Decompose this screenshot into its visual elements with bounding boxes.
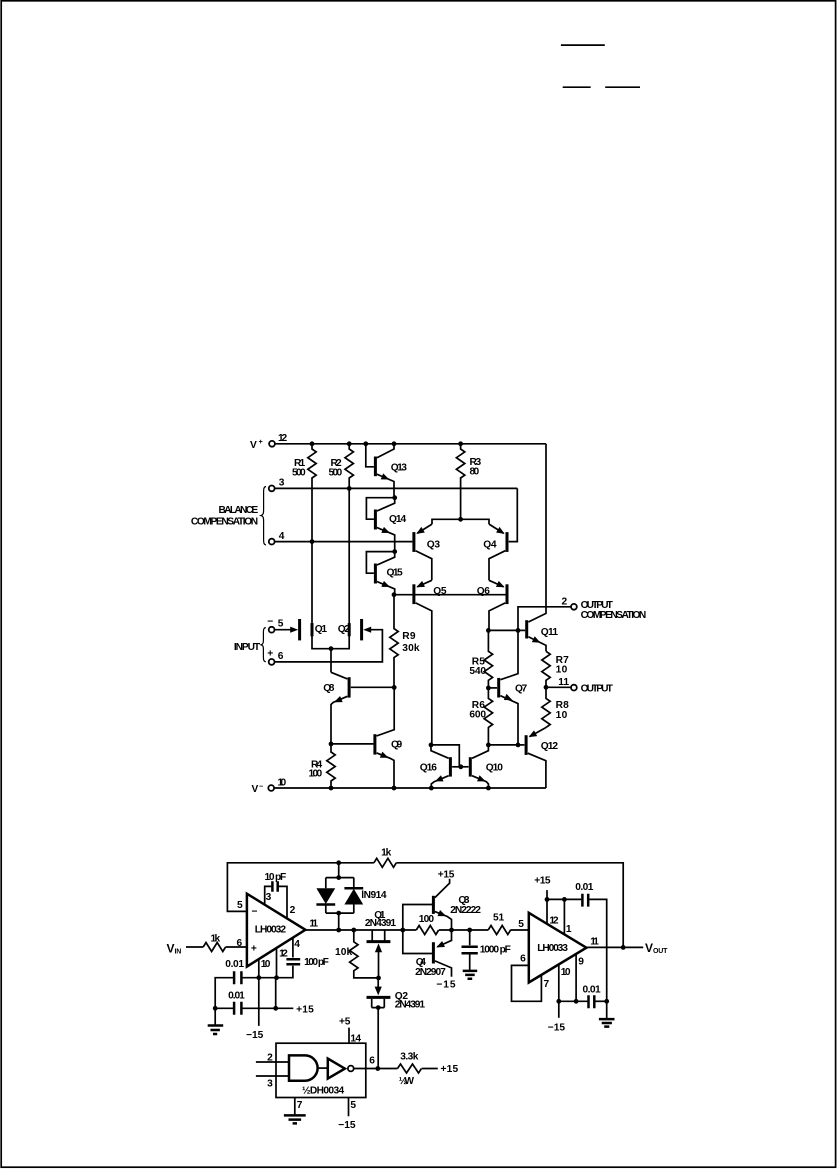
wire pin 10 stub to -15 xyxy=(258,959,260,1026)
transistor Q11 xyxy=(518,444,558,652)
svg-text:5: 5 xyxy=(278,619,284,630)
transistor Q12 xyxy=(518,728,558,789)
svg-text:−: − xyxy=(252,907,258,918)
wire gate output xyxy=(354,1056,378,1069)
node Q7 base xyxy=(486,686,491,691)
transistor Q13 xyxy=(366,444,407,498)
svg-text:Q16: Q16 xyxy=(420,762,438,773)
transistor Q7 xyxy=(488,630,527,745)
ground symbol left xyxy=(208,1008,224,1034)
svg-text:2N4391: 2N4391 xyxy=(365,918,397,929)
wire pin 7 stub xyxy=(295,1098,303,1116)
svg-text:3: 3 xyxy=(279,478,285,489)
svg-text:BALANCE: BALANCE xyxy=(219,505,259,516)
svg-text:V: V xyxy=(252,784,259,795)
op-amp U1 LH0032 xyxy=(237,894,306,967)
svg-text:6: 6 xyxy=(369,1056,375,1067)
svg-text:lN914: lN914 xyxy=(361,890,387,901)
svg-text:10: 10 xyxy=(556,710,568,721)
svg-text:+15: +15 xyxy=(296,1004,314,1015)
svg-text:Q4: Q4 xyxy=(483,539,497,550)
capacitor 0.01 lower xyxy=(215,990,293,1015)
svg-text:2N2907: 2N2907 xyxy=(415,967,446,978)
node Q5 collector junction xyxy=(429,743,434,748)
svg-text:Q15: Q15 xyxy=(387,567,404,578)
wire pin 10 stub LH0033 xyxy=(556,964,570,1003)
wire feedback top-left to pin5 xyxy=(227,863,374,912)
svg-text:+: + xyxy=(267,649,273,660)
wire buffer base loop xyxy=(403,905,433,954)
fraction bar 2 xyxy=(563,86,591,88)
svg-text:100: 100 xyxy=(309,768,323,779)
svg-text:9: 9 xyxy=(578,957,584,968)
svg-text:+15: +15 xyxy=(438,869,455,880)
resistor R8 10 xyxy=(542,687,569,727)
svg-text:0.01: 0.01 xyxy=(575,882,594,893)
svg-text:LH0032: LH0032 xyxy=(255,925,287,936)
node output xyxy=(544,685,549,690)
node Q7 emitter / Q12 base xyxy=(516,743,521,748)
resistor 100 xyxy=(416,914,438,935)
wire V- rail xyxy=(274,787,546,789)
wire mirror tie xyxy=(431,745,459,767)
svg-text:11: 11 xyxy=(558,677,569,688)
resistor R7 10 xyxy=(542,651,569,687)
svg-text:−: − xyxy=(259,784,263,791)
wire feedback right to output xyxy=(396,863,623,948)
wire input 3 xyxy=(256,1076,289,1090)
svg-text:−15: −15 xyxy=(436,980,456,991)
IC DH0034 box xyxy=(276,1043,366,1097)
AND gate xyxy=(289,1055,318,1080)
svg-text:3: 3 xyxy=(267,1079,273,1090)
svg-text:30k: 30k xyxy=(402,643,420,654)
node +15 tie xyxy=(273,1006,278,1011)
svg-text:Q12: Q12 xyxy=(541,741,559,752)
svg-text:11: 11 xyxy=(309,918,318,929)
svg-text:1k: 1k xyxy=(211,933,221,944)
wire pin 14 stub +5 xyxy=(339,1017,361,1045)
node pin2/Q11 base xyxy=(516,628,521,633)
svg-text:600: 600 xyxy=(469,710,486,721)
svg-text:6: 6 xyxy=(520,953,526,964)
wire to pin 6 xyxy=(226,946,247,948)
svg-text:OUTPUT: OUTPUT xyxy=(581,683,614,694)
input brace xyxy=(261,628,266,662)
ground symbol right xyxy=(599,1019,615,1027)
svg-text:100: 100 xyxy=(419,914,435,925)
resistor R9 30k xyxy=(390,595,420,688)
svg-text:−15: −15 xyxy=(338,1120,356,1131)
svg-text:2: 2 xyxy=(267,1053,273,1064)
wire pin 4 line xyxy=(274,541,412,543)
resistor 1k feedback xyxy=(374,847,396,867)
wire VIN xyxy=(186,946,203,948)
svg-text:5: 5 xyxy=(237,900,243,911)
transistor Q5 xyxy=(414,580,447,745)
wire output VOUT xyxy=(586,936,668,954)
svg-text:Q1: Q1 xyxy=(315,624,328,635)
svg-text:1000 pF: 1000 pF xyxy=(480,945,511,956)
pin 2 terminal xyxy=(562,597,577,610)
svg-text:OUT: OUT xyxy=(653,948,668,955)
wire pin12/+15 vertical xyxy=(275,978,277,1009)
svg-text:Q9: Q9 xyxy=(391,739,403,750)
svg-text:−15: −15 xyxy=(246,1030,264,1041)
node Q10 collector / R6 xyxy=(486,743,491,748)
capacitor 0.01 top LH0033 xyxy=(547,882,607,1019)
node diode branch top xyxy=(336,860,341,877)
fraction bar 3 xyxy=(605,86,640,88)
JFET Q1 xyxy=(274,542,331,649)
svg-text:5: 5 xyxy=(518,919,524,930)
svg-text:Q14: Q14 xyxy=(389,514,407,525)
svg-text:10: 10 xyxy=(556,664,568,675)
pin 10 terminal V- xyxy=(252,778,287,795)
svg-text:0.01: 0.01 xyxy=(225,959,244,970)
svg-text:7: 7 xyxy=(297,1100,303,1111)
node Q16/Q10 base tie xyxy=(458,764,463,769)
transistor Q3 xyxy=(414,524,440,580)
capacitor 0.01 upper xyxy=(215,959,276,1008)
pin 11 terminal OUTPUT xyxy=(558,677,613,694)
svg-text:3.3k: 3.3k xyxy=(400,1052,419,1063)
svg-text:Q10: Q10 xyxy=(486,762,504,773)
pin 4 terminal xyxy=(269,531,285,545)
svg-text:500: 500 xyxy=(292,468,306,479)
svg-text:1k: 1k xyxy=(381,847,392,858)
label BALANCE COMPENSATION xyxy=(191,505,258,527)
wire pin 5 stub -15 xyxy=(338,1098,356,1132)
svg-text:IN: IN xyxy=(175,949,182,956)
wire input 2 xyxy=(256,1053,289,1064)
wire output signal line xyxy=(305,929,528,931)
svg-text:14: 14 xyxy=(350,1033,361,1044)
wire to pin 11 xyxy=(546,686,571,688)
svg-text:Q8: Q8 xyxy=(323,683,335,694)
wire pin 6/7 loop LH0033 xyxy=(512,953,550,1001)
svg-text:10: 10 xyxy=(561,967,571,978)
resistor R6 600 xyxy=(469,688,492,745)
wire Q5/Q6 base rail xyxy=(394,594,506,596)
wire pin 9 stub LH0033 xyxy=(574,954,585,1004)
node ground tie xyxy=(213,1006,218,1011)
inverter with bubble xyxy=(318,1059,354,1079)
wire to pin 2 xyxy=(518,607,571,631)
svg-text:Q3: Q3 xyxy=(427,539,441,550)
transistor Q6 xyxy=(477,580,507,630)
svg-text:INPUT: INPUT xyxy=(234,642,261,653)
svg-text:−15: −15 xyxy=(548,1023,566,1034)
resistor R2 500 xyxy=(329,444,354,489)
svg-text:540: 540 xyxy=(469,666,486,677)
svg-text:500: 500 xyxy=(329,468,343,479)
svg-text:10: 10 xyxy=(278,778,287,789)
svg-text:+5: +5 xyxy=(339,1017,351,1028)
transistor Q8 xyxy=(323,672,394,744)
wire pin 12 stub xyxy=(276,948,278,978)
svg-text:5: 5 xyxy=(350,1100,356,1111)
svg-text:½W: ½W xyxy=(399,1076,415,1087)
wire pin 3 line xyxy=(274,487,517,489)
svg-text:11: 11 xyxy=(590,936,599,947)
wire Q6-collector to Q11-base xyxy=(488,629,518,631)
svg-text:6: 6 xyxy=(237,938,243,949)
wire -15 stub LH0033 xyxy=(548,1001,566,1033)
svg-text:10: 10 xyxy=(261,959,271,970)
resistor 51 xyxy=(488,913,510,935)
resistor R3 80 xyxy=(456,444,481,520)
svg-text:COMPENSATION: COMPENSATION xyxy=(191,516,258,527)
svg-text:7: 7 xyxy=(544,979,550,990)
svg-text:Q2: Q2 xyxy=(338,624,351,635)
svg-text:+15: +15 xyxy=(534,875,551,886)
svg-text:6: 6 xyxy=(278,651,284,662)
svg-text:4: 4 xyxy=(279,531,285,542)
svg-text:10 pF: 10 pF xyxy=(265,872,287,883)
svg-text:+: + xyxy=(259,439,263,446)
svg-text:10k: 10k xyxy=(335,947,353,958)
wire base line Q12 xyxy=(488,744,518,746)
balance compensation brace xyxy=(261,487,266,546)
wire pin 1 stub LH0033 xyxy=(562,897,572,935)
transistor Q2 2N4391 xyxy=(367,978,426,1069)
node dots on V+ rail xyxy=(310,441,463,446)
transistor Q4 2N2907 xyxy=(415,930,456,991)
svg-text:LH0033: LH0033 xyxy=(537,943,568,954)
svg-text:R9: R9 xyxy=(402,631,416,642)
capacitor 10 pF xyxy=(265,872,296,918)
transistor Q1 2N4391 xyxy=(365,910,397,978)
resistor 1k input xyxy=(203,933,225,951)
transistor Q10 xyxy=(461,745,503,788)
node common source xyxy=(329,646,334,672)
svg-text:1: 1 xyxy=(566,924,572,935)
pin 5 terminal (minus input) xyxy=(267,617,283,633)
svg-text:½DH0034: ½DH0034 xyxy=(302,1085,345,1096)
JFET Q2 xyxy=(274,619,382,662)
label VIN xyxy=(167,942,182,956)
resistor R5 540 xyxy=(469,630,492,688)
svg-text:12: 12 xyxy=(549,916,559,927)
svg-text:V: V xyxy=(645,941,653,955)
node Q6 collector xyxy=(486,628,491,633)
transistor Q9 xyxy=(331,687,403,788)
svg-text:V: V xyxy=(167,942,175,956)
svg-text:2: 2 xyxy=(562,597,568,608)
node DH0034 output xyxy=(375,1066,380,1071)
svg-text:Q7: Q7 xyxy=(515,683,528,694)
svg-text:51: 51 xyxy=(493,913,505,924)
label OUTPUT COMPENSATION xyxy=(581,600,647,621)
svg-text:2N2222: 2N2222 xyxy=(450,905,481,916)
fraction bar 1 xyxy=(561,44,605,46)
node dots on V- rail xyxy=(329,786,491,791)
transistor Q16 xyxy=(420,745,461,788)
svg-text:Q13: Q13 xyxy=(391,463,408,474)
svg-text:COMPENSATION: COMPENSATION xyxy=(581,610,647,621)
diode pair 1N914 xyxy=(316,875,386,930)
pin 12 V+ terminal xyxy=(250,433,288,451)
resistor 10k xyxy=(335,930,379,978)
transistor Q14 diode-connected xyxy=(366,495,406,551)
svg-text:−: − xyxy=(267,617,273,628)
svg-text:2N4391: 2N4391 xyxy=(395,1000,426,1011)
capacitor 100 pF xyxy=(277,938,329,978)
pin 3 terminal xyxy=(269,478,285,492)
wire Q3/Q4 emitter rail from R3 xyxy=(432,519,489,524)
svg-text:+15: +15 xyxy=(441,1064,459,1075)
node signal dots xyxy=(336,928,472,933)
svg-text:0.01: 0.01 xyxy=(228,990,245,1001)
svg-text:0.01: 0.01 xyxy=(583,984,602,995)
capacitor 0.01 bottom LH0033 xyxy=(559,984,609,1008)
wire pin 12 stub LH0033 xyxy=(534,875,559,926)
capacitor 1000 pF xyxy=(462,930,511,979)
svg-text:+: + xyxy=(251,944,257,955)
resistor 3.3k xyxy=(378,1052,459,1087)
svg-text:80: 80 xyxy=(470,467,480,478)
svg-text:Q11: Q11 xyxy=(541,627,559,638)
pin 6 terminal (plus input) xyxy=(267,649,283,665)
resistor R1 500 xyxy=(292,444,316,542)
node R9 bottom xyxy=(392,685,397,690)
svg-text:2: 2 xyxy=(290,905,296,916)
resistor R4 100 xyxy=(309,744,336,788)
ground symbol DH0034 xyxy=(284,1115,306,1123)
svg-text:12: 12 xyxy=(279,949,288,960)
wire V+ rail xyxy=(275,443,546,445)
svg-text:12: 12 xyxy=(278,433,288,444)
svg-text:V: V xyxy=(250,440,257,451)
transistor Q4 xyxy=(483,488,517,580)
svg-text:100 pF: 100 pF xyxy=(304,957,329,968)
wire R2 to Q2 drain xyxy=(348,488,350,624)
svg-text:3: 3 xyxy=(266,892,272,903)
svg-text:4: 4 xyxy=(294,939,300,950)
node Q1/Q2 gate tie xyxy=(376,976,381,981)
node Q8 emitter / R4 / Q9 base xyxy=(329,742,334,747)
op-amp U2 LH0033 xyxy=(518,913,586,983)
transistor Q15 diode-connected xyxy=(366,549,403,595)
transistor Q3 2N2222 xyxy=(433,869,481,930)
